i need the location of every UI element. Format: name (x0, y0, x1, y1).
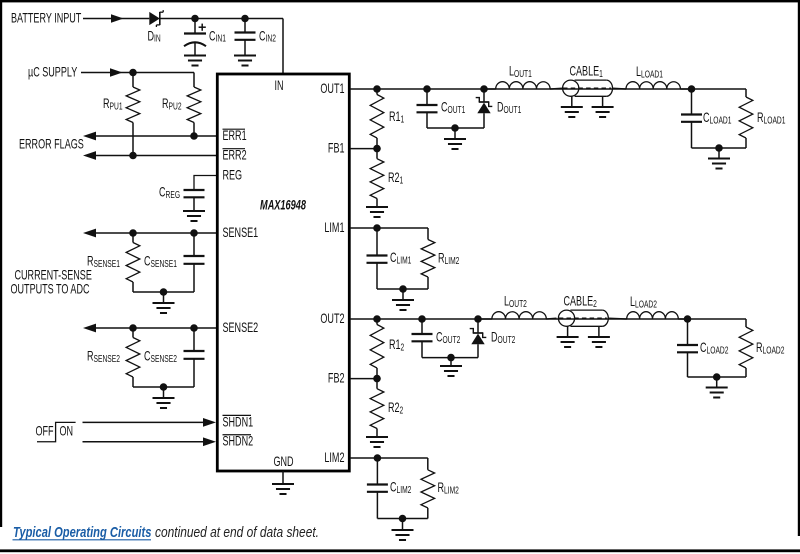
svg-text:R21: R21 (388, 171, 403, 185)
svg-text:DIN: DIN (148, 30, 161, 44)
svg-text:ERROR FLAGS: ERROR FLAGS (19, 138, 84, 152)
svg-text:µC SUPPLY: µC SUPPLY (28, 66, 78, 80)
ground COUT1 (444, 138, 466, 140)
frame border left (0, 0, 2, 527)
op-amp U1 MAX16948 IC body (217, 74, 349, 471)
capacitor CSENSE1 (193, 233, 195, 256)
svg-text:SENSE1: SENSE1 (223, 226, 259, 240)
resistor RPU1 (132, 73, 134, 88)
wire to IN pin (282, 19, 284, 75)
cable1 ground leg left (571, 96, 573, 107)
node CLIM1 gnd (399, 285, 407, 293)
svg-text:FB2: FB2 (328, 372, 345, 386)
node RPU1-ERR2 (129, 152, 137, 160)
arrow ERR2 out (83, 151, 96, 160)
node OUT1-R11 (373, 85, 381, 93)
capacitor CLOAD2 (687, 319, 689, 345)
resistor R21 (376, 149, 378, 159)
inductor LLOAD2 (627, 312, 679, 319)
node SENSE1 gnd (160, 288, 168, 296)
wire SHDN1 (83, 421, 205, 423)
cable1 ground leg right (602, 96, 604, 107)
svg-text:CABLE2: CABLE2 (563, 295, 597, 309)
capacitor COUT1 (426, 89, 428, 105)
wire CLOAD2-RLOAD2 rail (688, 376, 747, 378)
svg-text:RSENSE2: RSENSE2 (87, 350, 120, 364)
svg-text:MAX16948: MAX16948 (260, 199, 306, 213)
ground CLIM1 (392, 299, 414, 301)
wire ERR2 (96, 155, 216, 157)
resistor RSENSE2 (132, 328, 134, 338)
svg-text:R11: R11 (389, 110, 404, 124)
node battery-CIN1 (191, 15, 199, 23)
ground CLOAD1 (708, 158, 730, 160)
wire SHDN2 (83, 441, 205, 443)
ground CLIM2 (392, 529, 414, 531)
arrow SENSE1 out (83, 229, 96, 238)
node OUT2-COUT2 (418, 315, 426, 323)
node CLOAD1 gnd (715, 144, 723, 152)
node COUT1 gnd (451, 124, 459, 132)
wire REG pin (194, 176, 216, 191)
ground CIN2 (234, 55, 256, 57)
resistor RPU2 (187, 87, 201, 123)
svg-text:R22: R22 (388, 401, 403, 415)
capacitor COUT2 (421, 319, 423, 334)
frame border right (798, 0, 800, 536)
svg-text:LLOAD1: LLOAD1 (636, 65, 663, 79)
svg-text:R12: R12 (389, 338, 404, 352)
frame border bottom (0, 549, 800, 552)
node SENSE2-CSENSE2 (190, 324, 198, 332)
wire SENSE1 (96, 232, 216, 234)
resistor RLOAD2 (745, 319, 747, 327)
wire CLIM2 rail (377, 518, 427, 520)
node CLOAD2 gnd (713, 373, 721, 381)
resistor RLIM2b (427, 458, 429, 470)
cable CABLE2 (558, 310, 608, 326)
svg-text:LOUT1: LOUT1 (509, 65, 532, 79)
node LLOAD2-CLOAD2 (684, 315, 692, 323)
wire RPU2 top (193, 73, 195, 88)
arrow SENSE2 out (83, 324, 96, 333)
cable2 ground leg left (567, 326, 569, 337)
wire diode to IN corner (160, 18, 283, 20)
svg-text:CIN1: CIN1 (209, 30, 226, 44)
capacitor CSENSE2 (193, 328, 195, 351)
svg-text:RLIM2: RLIM2 (438, 481, 460, 495)
svg-text:RPU2: RPU2 (162, 97, 182, 111)
ground R22 (366, 436, 388, 438)
ground CIN1 (184, 55, 206, 57)
wire SENSE2 (96, 327, 216, 329)
svg-text:LIM1: LIM1 (324, 221, 344, 235)
resistor RLIM2a (427, 228, 429, 240)
wire COUT1-DOUT1 rail (427, 127, 484, 129)
svg-text:OUT2: OUT2 (320, 312, 344, 326)
svg-text:COUT2: COUT2 (436, 331, 461, 345)
svg-text:OUTPUTS TO ADC: OUTPUTS TO ADC (10, 283, 89, 297)
resistor RSENSE1 (132, 233, 134, 243)
node OUT2-R12 (373, 315, 381, 323)
svg-text:CSENSE2: CSENSE2 (144, 350, 177, 364)
wire LIM2 (350, 457, 428, 459)
svg-text:GND: GND (273, 456, 293, 470)
wire uC supply (81, 72, 194, 74)
svg-text:CURRENT-SENSE: CURRENT-SENSE (14, 269, 92, 283)
svg-text:CIN2: CIN2 (259, 30, 276, 44)
node FB2 (373, 375, 381, 383)
capacitor CREG (184, 189, 205, 191)
capacitor CLIM2 (376, 458, 378, 485)
inductor LOUT2 (478, 318, 492, 320)
ground GND pin (282, 471, 284, 484)
node SENSE2 gnd (160, 383, 168, 391)
capacitor CLIM1 (376, 228, 378, 256)
resistor R22 (376, 379, 378, 389)
resistor R11 (376, 89, 378, 95)
diode DIN (149, 10, 163, 27)
wire ERR1 (96, 135, 216, 137)
capacitor CIN1 polarized (184, 19, 206, 56)
svg-text:RSENSE1: RSENSE1 (87, 255, 120, 269)
svg-text:FB1: FB1 (328, 142, 345, 156)
node SENSE1-CSENSE1 (190, 229, 198, 237)
capacitor CIN2 (244, 19, 246, 33)
resistor RLOAD1 (745, 89, 747, 97)
ground SENSE1 (153, 302, 175, 304)
svg-text:DOUT1: DOUT1 (497, 101, 522, 115)
svg-text:COUT1: COUT1 (441, 101, 466, 115)
svg-text:CREG: CREG (159, 186, 180, 200)
node LIM1 (373, 224, 381, 232)
ground CLOAD2 (706, 387, 728, 389)
svg-text:BATTERY INPUT: BATTERY INPUT (11, 12, 81, 26)
svg-text:RLOAD1: RLOAD1 (757, 111, 786, 125)
svg-text:SENSE2: SENSE2 (223, 321, 259, 335)
wire FB1 (350, 148, 377, 150)
node FB1 (373, 145, 381, 153)
frame border top (0, 0, 800, 2)
cable2 ground leg right (598, 326, 600, 337)
svg-text:LIM2: LIM2 (324, 451, 344, 465)
svg-text:REG: REG (223, 169, 243, 183)
svg-text:continued at end of data sheet: continued at end of data sheet. (155, 524, 319, 540)
svg-text:SHDN1: SHDN1 (223, 416, 254, 430)
svg-text:CABLE1: CABLE1 (570, 65, 604, 79)
node LLOAD1-CLOAD1 (688, 85, 696, 93)
node SENSE2-RSENSE2 (129, 324, 137, 332)
node LIM2 (374, 454, 382, 462)
node OUT1-DOUT1 (480, 85, 488, 93)
svg-text:CLOAD2: CLOAD2 (700, 341, 729, 355)
wire CLIM1 rail (377, 288, 428, 290)
arrow battery input (111, 14, 124, 22)
svg-text:ON: ON (60, 425, 74, 439)
logic step symbol (37, 422, 76, 441)
node RPU2-ERR1 (190, 132, 198, 140)
arrow SHDN2 in (203, 437, 216, 446)
wire LIM1 (350, 227, 428, 229)
node SENSE1-RSENSE1 (129, 229, 137, 237)
svg-text:CLIM2: CLIM2 (390, 481, 412, 495)
node CLIM2 gnd (399, 515, 407, 523)
svg-text:RLOAD2: RLOAD2 (756, 341, 785, 355)
arrow ERR1 out (83, 132, 96, 141)
diode DOUT2 (477, 319, 479, 333)
node OUT1-COUT1 (423, 85, 431, 93)
svg-text:LLOAD2: LLOAD2 (630, 295, 657, 309)
svg-text:ERR1: ERR1 (223, 130, 247, 144)
svg-text:Typical Operating Circuits: Typical Operating Circuits (13, 523, 151, 540)
svg-text:LOUT2: LOUT2 (504, 295, 527, 309)
inductor LOUT1 (484, 88, 496, 90)
ground COUT2 (440, 365, 462, 367)
svg-text:CLIM1: CLIM1 (390, 251, 412, 265)
node COUT2 gnd (447, 354, 455, 362)
wire COUT2-DOUT2 rail (422, 357, 478, 359)
svg-text:RPU1: RPU1 (103, 97, 123, 111)
resistor R12 (376, 319, 378, 325)
wire OUT1 (350, 88, 746, 90)
diode DOUT1 (483, 89, 485, 102)
wire OUT2 (350, 318, 746, 320)
arrow uC supply (110, 68, 123, 76)
wire SENSE2 bottom rail (133, 386, 194, 388)
wire CLOAD1-RLOAD1 rail (692, 147, 747, 149)
svg-text:CLOAD1: CLOAD1 (703, 111, 732, 125)
capacitor CLOAD1 (691, 89, 693, 115)
svg-text:ERR2: ERR2 (223, 149, 247, 163)
node OUT2-DOUT2 (474, 315, 482, 323)
svg-text:SHDN2: SHDN2 (223, 435, 254, 449)
node battery-CIN2 (241, 15, 249, 23)
wire SENSE1 bottom rail (133, 291, 194, 293)
svg-text:RLIM2: RLIM2 (438, 252, 460, 266)
ground SENSE2 (153, 397, 175, 399)
arrow SHDN1 in (203, 418, 216, 427)
ground CREG (183, 210, 205, 212)
inductor LLOAD1 (626, 82, 680, 89)
svg-text:IN: IN (274, 79, 283, 93)
ground R21 (366, 206, 388, 208)
cable CABLE1 (563, 80, 613, 96)
wire battery input (83, 18, 149, 20)
svg-text:OUT1: OUT1 (320, 82, 344, 96)
wire cable2 to LLOAD2 (608, 317, 626, 320)
svg-text:CSENSE1: CSENSE1 (144, 255, 177, 269)
svg-text:OFF: OFF (36, 425, 54, 439)
wire cable1 to LLOAD1 (612, 87, 626, 90)
svg-text:DOUT2: DOUT2 (491, 331, 516, 345)
wire FB2 (350, 378, 377, 380)
node uC-RPU1 (129, 69, 137, 77)
